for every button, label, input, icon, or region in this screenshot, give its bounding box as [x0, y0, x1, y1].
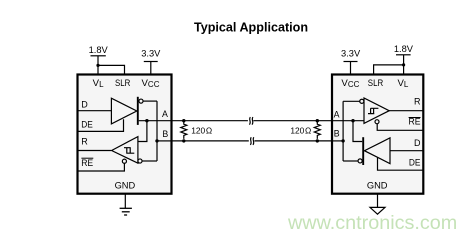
svg-text:3.3V: 3.3V: [341, 49, 361, 59]
svg-text:DE: DE: [409, 157, 421, 167]
driver U2 triangle: [364, 138, 390, 164]
driver U2 output bar: [362, 137, 364, 165]
svg-text:www.cntronics.com: www.cntronics.com: [287, 212, 457, 234]
node A tap right: [351, 119, 354, 122]
node R1 bottom: [182, 139, 185, 142]
wire B net vertical right: [342, 101, 344, 161]
svg-text:RE: RE: [81, 158, 93, 168]
svg-text:A: A: [162, 109, 168, 119]
svg-text:D: D: [81, 100, 88, 110]
svg-text:VCC: VCC: [142, 78, 160, 89]
wire B pin right: [332, 140, 343, 142]
svg-text:GND: GND: [115, 180, 136, 190]
svg-text:DE: DE: [81, 120, 93, 130]
svg-text:3.3V: 3.3V: [141, 49, 161, 59]
ground left stem: [124, 194, 126, 209]
supply 1.8V (left): [91, 55, 106, 57]
receiver U2 inverting bubble: [360, 99, 364, 103]
svg-text:1.8V: 1.8V: [89, 45, 109, 55]
receiver U1 hysteresis symbol: [124, 148, 134, 154]
svg-text:SLR: SLR: [115, 78, 130, 89]
node A tap left: [145, 119, 148, 122]
ground right stem: [377, 194, 379, 208]
svg-text:120 Ω: 120 Ω: [290, 125, 311, 135]
wire R output right: [389, 110, 423, 112]
node R2 bottom: [316, 139, 319, 142]
resistor R1 120ohm zigzag: [181, 121, 187, 139]
wire RE input: [79, 163, 125, 171]
svg-text:GND: GND: [367, 180, 388, 190]
receiver U2 enable bubble: [375, 120, 379, 124]
driver U2 inverting bubble: [358, 159, 362, 163]
svg-text:R: R: [81, 136, 88, 146]
node R2 top: [316, 119, 319, 122]
junction dots: [96, 63, 405, 142]
wire A branch to driver bar: [353, 121, 362, 142]
receiver U1 inverting bubble: [138, 159, 142, 163]
wire R output: [79, 150, 112, 152]
svg-text:Typical Application: Typical Application: [194, 21, 308, 35]
supply 3.3V (right): [344, 61, 358, 63]
ground right triangle: [370, 207, 385, 214]
wire driver Z to B: [143, 100, 157, 102]
wire A branch to receiver: [138, 121, 147, 142]
wire VCC stem right: [350, 62, 352, 75]
svg-text:D: D: [414, 138, 421, 148]
wire D input right: [390, 150, 423, 152]
break marks B line: [250, 137, 251, 145]
svg-text:RE: RE: [409, 117, 421, 127]
svg-text:B: B: [162, 129, 168, 139]
supply 1.8V (right): [396, 54, 411, 56]
wire receiver inverting input to B: [142, 160, 157, 162]
wire B to driver Z right: [343, 160, 358, 162]
node B tap left: [155, 139, 158, 142]
resistor R2 120ohm zigzag: [314, 121, 320, 139]
receiver U2 triangle: [364, 98, 389, 123]
svg-text:A: A: [334, 109, 340, 119]
receiver U1 triangle: [112, 137, 138, 164]
driver U1 triangle: [111, 98, 136, 124]
svg-text:1.8V: 1.8V: [394, 44, 414, 54]
node R1 top: [182, 119, 185, 122]
svg-text:R: R: [414, 97, 421, 107]
svg-text:VCC: VCC: [341, 78, 359, 89]
node VL/SLR left: [96, 64, 99, 67]
wire D input: [79, 110, 112, 112]
svg-text:B: B: [334, 129, 340, 139]
bus wire B: [172, 140, 249, 142]
node VL/SLR right: [402, 63, 405, 66]
driver U1 output bar: [137, 97, 139, 125]
wire 1.8V to SLR right: [374, 65, 404, 75]
receiver U2 hysteresis symbol: [368, 108, 378, 113]
wire A net inside: [139, 120, 172, 122]
svg-text:VL: VL: [93, 78, 104, 89]
break marks A line: [249, 117, 250, 125]
wire B net vertical: [156, 101, 158, 161]
driver U1 inverting bubble: [139, 99, 143, 103]
wire VCC stem: [150, 62, 152, 75]
wire 1.8V to SLR: [98, 65, 125, 74]
wire VL stem right: [403, 55, 405, 75]
node B tap right: [341, 139, 344, 142]
svg-text:SLR: SLR: [368, 78, 383, 89]
receiver U1 enable bubble: [122, 159, 126, 163]
IC U1 (left transceiver): [78, 75, 172, 194]
bus wire A: [172, 120, 248, 122]
wire DE input right: [378, 157, 424, 170]
wire A pin right: [332, 120, 364, 122]
wire B to receiver inverting input: [343, 100, 359, 102]
wire B pin: [157, 140, 172, 142]
wire RE right: [377, 124, 423, 131]
ground left bars: [120, 208, 132, 215]
wire DE input: [79, 119, 124, 131]
svg-text:120 Ω: 120 Ω: [191, 125, 212, 135]
supply 3.3V (left): [144, 61, 158, 63]
wire VL stem: [97, 56, 99, 75]
IC U2 (right transceiver): [332, 75, 423, 194]
svg-text:VL: VL: [397, 78, 408, 89]
